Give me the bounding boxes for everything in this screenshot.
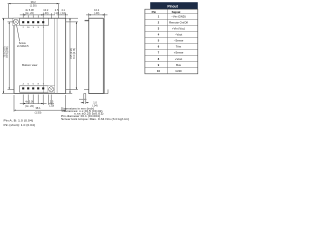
- svg-text:38.1: 38.1: [35, 106, 41, 110]
- svg-text:+Vout: +Vout: [175, 57, 182, 61]
- svg-text:(1.50): (1.50): [30, 3, 37, 7]
- svg-text:+Vin (Vcc): +Vin (Vcc): [172, 27, 185, 31]
- svg-text:(1.50): (1.50): [35, 111, 42, 115]
- svg-text:4x 5.08: 4x 5.08: [25, 99, 34, 103]
- svg-text:Remote On/Off: Remote On/Off: [169, 21, 188, 25]
- svg-text:Signal: Signal: [172, 10, 181, 14]
- svg-text:38.2: 38.2: [31, 0, 37, 4]
- svg-text:(.16): (.16): [61, 11, 66, 15]
- svg-text:+Sense: +Sense: [174, 51, 184, 55]
- svg-text:Bus: Bus: [176, 63, 181, 67]
- svg-text:GND: GND: [175, 69, 181, 73]
- svg-text:(4x .20): (4x .20): [25, 11, 34, 15]
- svg-text:(.10): (.10): [49, 104, 54, 108]
- svg-text:Pinout: Pinout: [167, 4, 178, 8]
- svg-text:70.0 (2.76): 70.0 (2.76): [74, 48, 76, 59]
- svg-text:(.40): (.40): [43, 11, 48, 15]
- svg-text:Trim: Trim: [176, 45, 182, 49]
- svg-text:Bottom view: Bottom view: [22, 63, 38, 67]
- svg-text:67.5 (2.66): 67.5 (2.66): [7, 46, 9, 57]
- svg-text:(4x .20): (4x .20): [25, 104, 34, 108]
- svg-text:−Vin (GND): −Vin (GND): [171, 15, 186, 19]
- svg-text:2.5: 2.5: [50, 99, 54, 103]
- svg-text:Screw lock torque: Max. 0.34 N: Screw lock torque: Max. 0.34 Nm (3.0 kgf…: [61, 118, 130, 121]
- svg-text:(.40): (.40): [94, 11, 99, 15]
- svg-text:Pin (short): 1.0 (0.04): Pin (short): 1.0 (0.04): [4, 124, 36, 127]
- svg-text:Pin A, B: 1.0 (0.04): Pin A, B: 1.0 (0.04): [4, 120, 34, 123]
- svg-text:72.9 (2.87): 72.9 (2.87): [4, 46, 6, 57]
- svg-text:2x M3x0.5: 2x M3x0.5: [17, 45, 29, 48]
- svg-text:(.10): (.10): [54, 11, 59, 15]
- svg-text:−Vout: −Vout: [175, 33, 182, 37]
- svg-text:−Sense: −Sense: [174, 39, 184, 43]
- svg-text:Pin: Pin: [152, 10, 157, 14]
- svg-text:74.5 (2.93): 74.5 (2.93): [71, 48, 73, 59]
